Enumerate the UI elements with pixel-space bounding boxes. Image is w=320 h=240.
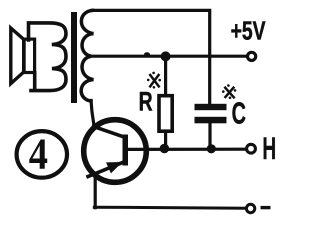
speaker LS1 driver (24, 39, 35, 72)
svg-text:H: H (262, 130, 276, 166)
minus dash (261, 206, 271, 209)
terminal H (247, 144, 256, 153)
svg-text:4: 4 (29, 129, 48, 179)
wire collector lead (transformer to transistor) (91, 101, 94, 126)
resistor R (159, 96, 172, 132)
svg-text:C: C (232, 96, 246, 131)
svg-text:+5V: +5V (231, 18, 266, 46)
wire R top lead (164, 56, 167, 95)
capacitor C bottom plate (195, 117, 227, 124)
speaker LS1 cone (11, 28, 24, 84)
transistor Q1 (84, 120, 147, 183)
node junction dot A (+5V / R) (161, 51, 171, 61)
transformer T1 core (71, 12, 77, 103)
asterisk (C value) (222, 84, 236, 99)
wire emitter lead down (94, 178, 97, 208)
transformer T1 secondary winding (81, 10, 93, 101)
wire R bottom lead (164, 131, 167, 149)
wire bottom rail (94, 207, 246, 208)
wire top rail (92, 10, 210, 104)
junction speck on +5V rail (144, 52, 150, 56)
wire C bottom lead (208, 123, 211, 149)
terminal bottom (minus) (246, 204, 254, 212)
svg-text:R: R (139, 87, 153, 117)
wire H line (base rail) (128, 148, 245, 151)
terminal +5V (248, 52, 256, 60)
asterisk (R value) (147, 72, 161, 89)
capacitor C top plate (195, 104, 227, 110)
node junction dot B (R / H line) (160, 144, 170, 154)
transformer T1 primary winding (29, 23, 67, 91)
figure number circle 4 (17, 129, 67, 179)
wire +5V rail (91, 55, 246, 58)
node junction dot C (C / H line) (207, 144, 216, 153)
